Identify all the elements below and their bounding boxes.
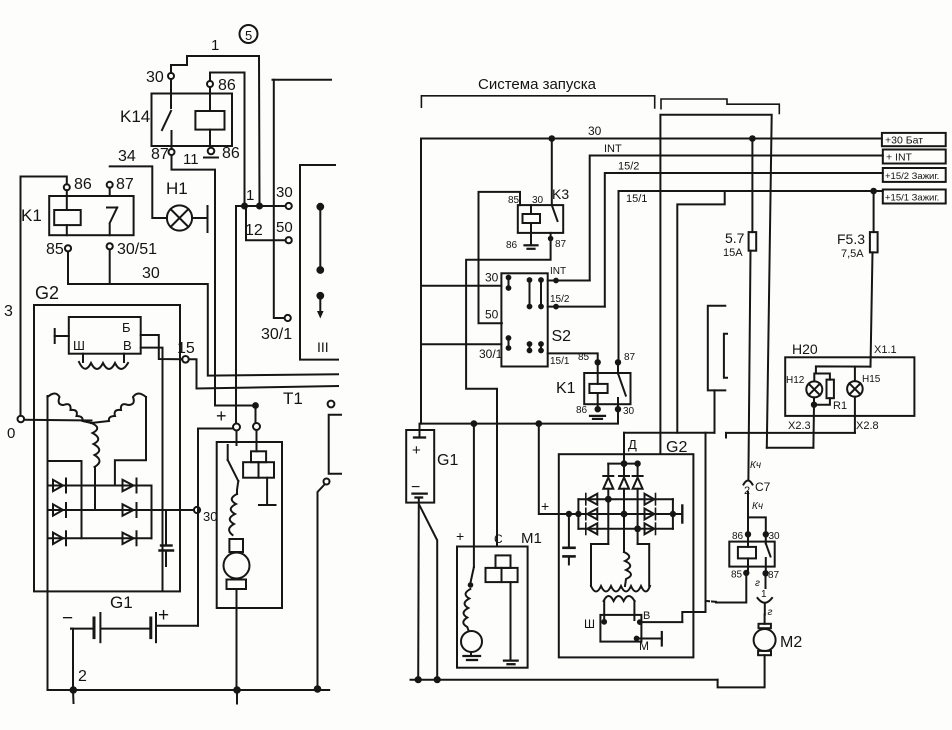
svg-text:H1: H1: [166, 179, 188, 198]
regulator box right: [600, 615, 641, 642]
svg-text:+: +: [412, 442, 421, 459]
junction dot F5.3 on 15/1 bus: [871, 189, 876, 194]
diode VD2: [53, 503, 66, 517]
svg-text:+: +: [456, 528, 464, 544]
svg-text:III: III: [317, 339, 329, 355]
svg-text:Ш: Ш: [584, 617, 595, 631]
fuse 5.7 wire down: [748, 251, 750, 479]
tag +15/2: [883, 168, 946, 182]
K1r contact blade: [618, 365, 626, 409]
X2.3 link bar: [767, 447, 814, 449]
diode right r1: [645, 494, 656, 505]
diode VD3: [53, 531, 66, 545]
svg-text:H12: H12: [786, 375, 805, 386]
svg-text:+: +: [541, 498, 549, 514]
svg-text:+ INT: + INT: [886, 152, 913, 164]
wire 15/1 bus: [619, 191, 883, 362]
starter contact blade: [228, 431, 239, 495]
lamp H12: [786, 374, 822, 398]
K1r terminal 85: [578, 352, 600, 384]
ignition switch box: [300, 165, 338, 360]
svg-text:30: 30: [276, 184, 293, 201]
svg-text:0: 0: [7, 425, 15, 442]
svg-text:Система запуска: Система запуска: [478, 76, 597, 93]
rotor winding: [79, 354, 128, 369]
rotor leads: [604, 601, 634, 622]
junction dot: [253, 403, 258, 408]
ground bus bottom: [49, 687, 330, 703]
box H20: [785, 341, 914, 416]
starter solenoid core lead: [259, 478, 276, 505]
relay K coil: [738, 537, 756, 572]
stator winding right phase: [91, 394, 146, 424]
diode right r2: [645, 508, 656, 519]
K1r coil: [589, 384, 607, 409]
battery G1: [62, 593, 169, 629]
terminal 30 of generator: [194, 507, 218, 524]
wire 87/11 of K14 down to starter: [172, 155, 256, 423]
node 5 (circled): [240, 25, 258, 43]
svg-text:12: 12: [245, 222, 263, 239]
S2 INT terminal: [548, 266, 590, 282]
S2 15/1 terminal wire to K1-85: [548, 353, 598, 367]
svg-text:X2.8: X2.8: [856, 420, 879, 432]
svg-text:M1: M1: [521, 530, 542, 547]
svg-text:−: −: [62, 608, 73, 629]
svg-text:30/51: 30/51: [117, 241, 157, 258]
starter M1 box: [456, 528, 542, 668]
svg-text:C: C: [494, 532, 503, 546]
M1 solenoid: [486, 555, 518, 582]
wire 85 to B riser: [706, 575, 747, 603]
svg-text:+15/2 Зажиг.: +15/2 Зажиг.: [885, 171, 939, 182]
starter T1 box: [217, 389, 303, 608]
switch S2: [501, 273, 571, 366]
node row 1/30: [236, 184, 293, 209]
cut component at scan edge (relay): [328, 401, 341, 474]
fuse F5.3: [837, 191, 878, 260]
svg-text:50: 50: [485, 308, 499, 322]
svg-text:15/1: 15/1: [550, 356, 570, 367]
tag +INT: [883, 150, 946, 164]
battery plus wire up to starter: [197, 429, 199, 626]
svg-text:G2: G2: [666, 439, 687, 456]
svg-text:87: 87: [151, 146, 169, 163]
bracket 1: [421, 96, 654, 108]
S2 contact d: [507, 336, 511, 350]
stator right outline: [591, 544, 649, 586]
terminal 30 of K14: [146, 69, 174, 86]
wire V of regulator down: [141, 348, 163, 591]
terminal 87 of K14: [151, 146, 175, 163]
svg-text:Б: Б: [122, 320, 131, 335]
terminal 87 of K1: [107, 176, 134, 196]
svg-text:X2.3: X2.3: [788, 420, 811, 432]
junction dot M1 plus: [472, 421, 477, 426]
svg-text:M2: M2: [780, 634, 802, 651]
lamp H1: [166, 179, 192, 231]
ground bus right schematic: [411, 679, 718, 681]
diode VD1: [53, 479, 66, 493]
svg-text:Ш: Ш: [73, 338, 85, 353]
svg-text:15A: 15A: [723, 247, 743, 259]
svg-text:15/1: 15/1: [626, 193, 647, 205]
wire X2.3: [788, 397, 816, 447]
svg-text:+15/1 Зажиг.: +15/1 Зажиг.: [885, 192, 939, 203]
terminal 30/51 of K1: [107, 241, 158, 284]
wire 2 to ground bus: [71, 629, 88, 703]
svg-text:30: 30: [203, 509, 217, 524]
stator outer connections: [48, 397, 147, 538]
svg-text:87: 87: [555, 239, 567, 250]
K1r terminal 30: [616, 406, 635, 417]
left bus of bridge down to bottom: [47, 396, 49, 690]
wire to terminal 30/1: [261, 80, 331, 343]
svg-text:30: 30: [623, 406, 635, 417]
M1 plus wire: [473, 424, 475, 567]
bridge row 2 plus output: [567, 506, 683, 523]
wire 15/2 bus: [605, 161, 883, 307]
svg-text:М: М: [639, 639, 649, 653]
svg-text:85: 85: [578, 352, 590, 363]
svg-text:15/2: 15/2: [618, 161, 639, 173]
svg-text:Кч: Кч: [750, 460, 761, 471]
starter motor: [224, 539, 250, 690]
tag +15/1: [883, 190, 946, 204]
K1 contact: [107, 208, 117, 236]
terminal D wire: [622, 433, 715, 466]
svg-text:87: 87: [624, 352, 636, 363]
terminal V: [638, 610, 682, 624]
M1 contact blade: [469, 567, 474, 587]
svg-text:G2: G2: [35, 283, 59, 303]
diode left r2: [586, 508, 598, 519]
phase junction dots: [606, 497, 640, 531]
cut wire to ground bus: [315, 479, 330, 692]
svg-text:87: 87: [116, 176, 134, 193]
relay K3: [508, 186, 569, 233]
battery minus wires down: [416, 498, 440, 683]
bridge top bar: [608, 461, 640, 465]
top diode 2: [619, 464, 629, 552]
diode left r3: [586, 523, 598, 534]
generator G2 right box: [559, 439, 694, 657]
svg-text:30: 30: [142, 265, 160, 282]
svg-text:В: В: [643, 610, 650, 622]
svg-text:86: 86: [218, 77, 236, 94]
S2 contact f: [539, 342, 543, 352]
svg-text:R1: R1: [833, 400, 847, 412]
battery plates right: [411, 424, 427, 498]
wire node 0 to star point: [24, 419, 91, 422]
svg-text:G1: G1: [437, 452, 458, 469]
regulator left contact: [55, 329, 69, 343]
svg-text:+30 Бат: +30 Бат: [885, 134, 923, 146]
svg-text:86: 86: [732, 531, 744, 542]
lamp H15: [847, 367, 881, 397]
svg-text:86: 86: [576, 405, 588, 416]
svg-text:K1: K1: [21, 206, 42, 225]
generator G2 box: [34, 283, 180, 591]
relay K box: [729, 542, 774, 567]
wire X2.8: [726, 397, 879, 438]
S2 contact e: [528, 342, 532, 352]
K14 contact: [162, 79, 172, 149]
wire 34 from K1-87 to lamp: [110, 166, 167, 218]
K1 coil: [54, 196, 80, 235]
svg-text:C7: C7: [755, 480, 771, 494]
top diode 3: [633, 464, 643, 544]
node 0: [7, 416, 24, 442]
battery G1 right: [406, 430, 458, 503]
generator output 30 terminal on plus wire: [0, 0, 1, 1]
inner box left leg to G2: [677, 191, 724, 433]
K3 30 wire from bus: [551, 139, 553, 206]
wire 30 from K1 to right: [68, 265, 338, 376]
relay K1 right: [556, 373, 631, 404]
svg-text:30/1: 30/1: [261, 326, 292, 343]
terminal M: [635, 632, 662, 653]
relay K blade: [766, 537, 771, 572]
svg-text:85: 85: [508, 195, 520, 206]
tag +30 Bat: [882, 133, 946, 147]
starter terminal plus: [233, 424, 240, 431]
svg-text:1: 1: [211, 37, 219, 54]
relay K terminal 85: [731, 570, 749, 581]
svg-text:X1.1: X1.1: [874, 344, 897, 356]
relay K1: [21, 196, 134, 235]
wire S2-30/1 from left bus: [421, 344, 503, 361]
bridge row lines: [48, 486, 194, 539]
K1r terminal 86 and ground: [576, 405, 605, 419]
svg-text:INT: INT: [604, 143, 622, 155]
terminal 15: [177, 340, 195, 363]
K3 ground: [506, 240, 538, 251]
relay K14: [120, 94, 232, 147]
svg-text:г: г: [768, 607, 773, 618]
wire S2-30 from left bus: [421, 271, 501, 286]
svg-text:15/2: 15/2: [550, 294, 570, 305]
regulator box: [69, 317, 141, 354]
terminal 86 of K1: [64, 176, 92, 196]
diode VD6: [123, 531, 137, 545]
svg-text:87: 87: [768, 570, 780, 581]
resistor R1: [814, 374, 847, 413]
svg-text:7,5A: 7,5A: [841, 248, 864, 260]
svg-text:86: 86: [74, 176, 92, 193]
junction dot G2 plus drop: [536, 421, 541, 426]
svg-text:+: +: [216, 406, 227, 426]
svg-text:3: 3: [4, 303, 13, 320]
motor M2: [754, 615, 803, 656]
S2 contact b: [528, 278, 532, 308]
S2 15/2 terminal: [548, 294, 605, 309]
capacitor right: [564, 514, 575, 564]
bridge row 1: [578, 498, 673, 500]
svg-text:В: В: [123, 338, 132, 353]
H20 internal feed: [816, 366, 871, 373]
M1 solenoid rod and ground: [504, 582, 518, 664]
svg-text:F5.3: F5.3: [837, 231, 865, 247]
diode left r1: [586, 494, 598, 505]
fuse 5.7: [723, 139, 756, 260]
wire from node row down to starter plus: [235, 206, 237, 424]
K1r terminal 87: [616, 352, 636, 364]
bridge row 3: [578, 528, 673, 530]
svg-text:Д: Д: [628, 437, 637, 452]
terminal 86 of K14 (top): [207, 77, 236, 94]
wire S2-50 to K3-85: [479, 192, 521, 323]
stator middle coil: [624, 552, 631, 586]
wire K1-86 to node 0 (left bus 3): [21, 177, 67, 416]
svg-text:S2: S2: [552, 328, 572, 345]
K3 contact blade: [552, 205, 558, 221]
node row 12/50: [245, 206, 293, 243]
wire 86-K14 down to node row: [210, 73, 245, 207]
wire B to terminal 15: [141, 335, 183, 359]
starter terminal 2: [253, 423, 260, 430]
ignition contact II: [317, 293, 324, 319]
svg-text:34: 34: [118, 148, 136, 165]
svg-text:г: г: [755, 578, 760, 589]
svg-text:5.7: 5.7: [725, 230, 745, 246]
starter plus lead: [200, 406, 233, 429]
svg-text:15: 15: [177, 340, 195, 357]
svg-text:5: 5: [245, 28, 252, 43]
wire F5.3 to X1.1: [871, 252, 897, 366]
top diode 1: [603, 464, 613, 544]
svg-text:1: 1: [246, 187, 254, 204]
wire G2 plus drop: [539, 424, 579, 514]
K3 coil: [523, 205, 541, 245]
svg-text:K3: K3: [552, 186, 569, 202]
stator winding left phase: [48, 394, 92, 424]
svg-text:86: 86: [506, 240, 518, 251]
svg-text:H20: H20: [792, 341, 818, 357]
battery G1 leads: [71, 626, 198, 629]
svg-text:30: 30: [588, 124, 602, 138]
K3 87 wire to starter solenoid: [466, 233, 566, 547]
svg-text:30: 30: [769, 531, 781, 542]
svg-text:30: 30: [532, 195, 544, 206]
svg-text:50: 50: [276, 219, 293, 236]
wire to K14 terminal 30: [171, 56, 187, 73]
inner box top: [660, 115, 771, 454]
wire 1: [187, 56, 260, 206]
stator bottom winding: [591, 586, 650, 592]
wire K1r-30 to plus line: [421, 409, 618, 423]
diode right r3: [645, 523, 656, 534]
junction dot fuse 5.7 on 30 bus: [750, 136, 755, 141]
M1 motor ground: [464, 656, 481, 660]
wire INT bus: [590, 143, 883, 281]
battery G1 plates: [94, 613, 156, 642]
svg-text:30: 30: [485, 271, 499, 285]
svg-text:11: 11: [183, 151, 199, 168]
diode VD5: [123, 503, 137, 517]
wire 15 to right: [189, 359, 338, 388]
relay K terminals 86 30: [732, 531, 780, 542]
S2 contact c: [539, 278, 543, 308]
diode VD4: [123, 479, 137, 493]
svg-text:30/1: 30/1: [479, 347, 503, 361]
lamp H1 right contact: [192, 206, 207, 232]
relay K terminal 87: [763, 570, 779, 581]
K14 coil: [195, 87, 224, 146]
S2 contact a: [507, 276, 511, 290]
M1 series winding: [463, 589, 470, 631]
terminal Sh: [584, 617, 606, 631]
bracket 2: [661, 99, 779, 114]
rotor winding right: [604, 596, 635, 601]
svg-text:86: 86: [222, 145, 240, 162]
wire B riser: [682, 433, 705, 622]
bridge side buses: [578, 499, 673, 529]
svg-text:K14: K14: [120, 107, 150, 126]
svg-text:30: 30: [146, 69, 164, 86]
wire bus to M2: [718, 655, 765, 687]
connector bracket fragment: [708, 306, 727, 433]
stator winding middle phase: [92, 423, 100, 467]
wire 30 bus: [421, 124, 882, 424]
svg-text:+: +: [158, 605, 169, 626]
svg-text:G1: G1: [110, 593, 133, 612]
connector G to M2: [755, 576, 773, 619]
svg-text:INT: INT: [550, 266, 566, 277]
svg-text:Кч: Кч: [752, 501, 763, 512]
svg-text:K1: K1: [556, 380, 576, 397]
M1 motor: [461, 631, 482, 655]
wire C7 to relay: [747, 492, 749, 517]
terminal 85 of K1: [46, 241, 71, 284]
junction dot K3-30 on 30 bus: [550, 136, 555, 141]
svg-text:85: 85: [731, 570, 743, 581]
capacitor: [160, 510, 174, 566]
svg-text:2: 2: [78, 668, 87, 685]
connector C7: [744, 460, 771, 512]
starter series winding: [229, 494, 237, 535]
svg-text:T1: T1: [283, 389, 303, 408]
svg-text:1: 1: [761, 589, 767, 600]
starter solenoid: [243, 430, 274, 478]
ignition contact I: [317, 204, 323, 273]
svg-text:85: 85: [46, 241, 64, 258]
terminal 86 of K14 (bottom): [204, 145, 240, 162]
relay K fork: [748, 517, 766, 532]
svg-text:H15: H15: [862, 374, 881, 385]
